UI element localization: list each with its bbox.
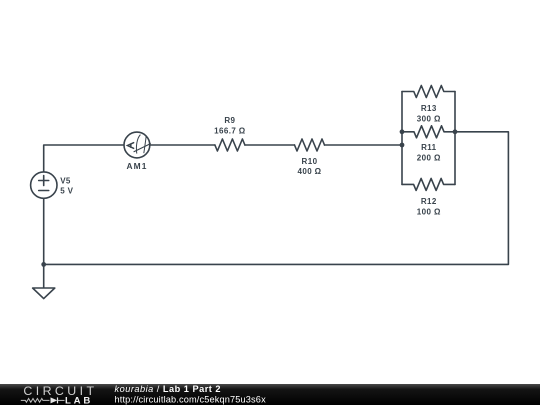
- footer logo resistor glyph: [21, 399, 50, 403]
- wire: right rail of parallel group: [454, 92, 456, 185]
- resistor R12: [402, 178, 455, 190]
- svg-text:http://circuitlab.com/c5ekqn75: http://circuitlab.com/c5ekqn75u3s6x: [115, 394, 267, 404]
- footer logo diode glyph: [51, 397, 58, 403]
- svg-text:200 Ω: 200 Ω: [417, 153, 441, 162]
- svg-text:400 Ω: 400 Ω: [298, 167, 322, 176]
- svg-text:166.7 Ω: 166.7 Ω: [214, 126, 246, 135]
- wire: V5 bottom to ground node: [43, 198, 45, 264]
- svg-text:V5: V5: [60, 177, 71, 186]
- wire: V5 top to ammeter: [44, 145, 124, 172]
- svg-text:5 V: 5 V: [60, 186, 73, 195]
- svg-text:R11: R11: [421, 143, 437, 152]
- resistor R11: [402, 126, 455, 138]
- node: ground junction: [41, 262, 46, 267]
- wire: ammeter to R9: [150, 144, 215, 146]
- svg-text:R13: R13: [421, 104, 437, 113]
- svg-text:300 Ω: 300 Ω: [417, 115, 441, 124]
- ground: [33, 288, 55, 299]
- footer bar: [0, 384, 540, 405]
- svg-text:R10: R10: [302, 157, 318, 166]
- svg-text:100 Ω: 100 Ω: [417, 207, 441, 216]
- resistor R10: [295, 139, 325, 151]
- ammeter AM1: [124, 132, 151, 158]
- node: junction at right rail / R11: [453, 129, 458, 134]
- resistor R13: [402, 86, 455, 98]
- wire: left rail of parallel group: [401, 92, 403, 185]
- wire: R10 to node A: [325, 144, 403, 146]
- svg-text:kourabia / Lab 1 Part 2: kourabia / Lab 1 Part 2: [115, 384, 222, 394]
- node: junction at left rail / input wire: [400, 143, 405, 148]
- resistor R9: [215, 139, 245, 151]
- voltage source V5: [31, 172, 57, 198]
- wire: R9 to R10: [245, 144, 295, 146]
- svg-text:AM1: AM1: [127, 161, 148, 171]
- svg-text:R12: R12: [421, 197, 437, 206]
- node: junction at left rail / R11: [400, 129, 405, 134]
- svg-text:R9: R9: [224, 116, 235, 125]
- svg-text:LAB: LAB: [65, 396, 93, 405]
- wire: node B to bottom return: [44, 132, 509, 265]
- wire: ground stem: [43, 264, 45, 288]
